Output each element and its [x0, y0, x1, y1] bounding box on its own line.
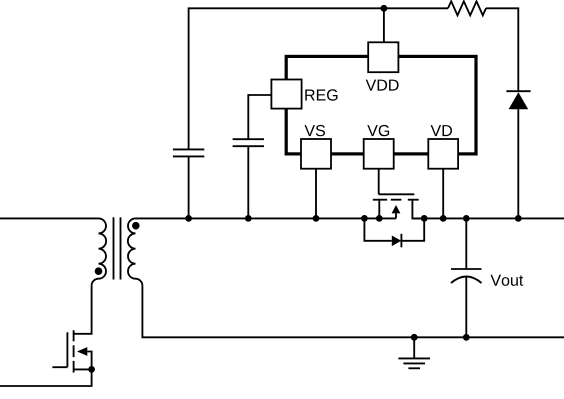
wire resistor to diode cathode — [486, 8, 518, 91]
transistor Q1 (primary MOSFET) — [67, 330, 91, 372]
capacitor C3 Vout (polarized) — [451, 269, 482, 283]
label VD — [431, 125, 452, 136]
resistor R1 — [448, 1, 486, 15]
node C2/rail junction — [245, 215, 252, 222]
wire body-diode loop left side — [364, 219, 391, 241]
transformer T1 core lines — [114, 217, 121, 279]
pin VD of U1 — [428, 139, 458, 169]
wire body-diode loop right side — [401, 218, 424, 240]
diode D1 (pointing up, cathode bar on top) — [506, 91, 530, 109]
node VS/rail junction — [313, 215, 320, 222]
node body-diode left junction — [361, 215, 368, 222]
label Vout — [491, 275, 524, 286]
wire primary bottom to Q1 drain — [74, 286, 92, 334]
node Q1 source/body junction — [88, 366, 95, 373]
IC U1 body (bold outline) — [286, 56, 476, 153]
wire C2 to rail — [247, 146, 249, 218]
pin VG of U1 — [364, 139, 394, 169]
label VG — [367, 125, 389, 136]
label VS — [305, 125, 326, 136]
node diode/rail junction — [515, 215, 522, 222]
pin REG of U1 — [271, 80, 301, 109]
transistor Q2 (synchronous rectifier MOSFET) — [373, 194, 424, 218]
wire main rail centre segment (secondary top to Q2 source/body) — [136, 217, 397, 219]
wire main rail left segment (input side) — [0, 217, 99, 219]
wire diode anode to output rail — [517, 109, 519, 218]
wire REG to C2 — [248, 95, 271, 139]
label REG — [305, 89, 337, 100]
wire top rail from C1 up and across to resistor — [189, 8, 448, 149]
node body-diode right junction — [421, 215, 428, 222]
label VDD — [366, 80, 399, 91]
wire VS pin down to rail — [315, 169, 317, 219]
transformer T1 primary winding — [92, 218, 107, 285]
node VDD junction dot on top rail — [381, 5, 388, 12]
wire C1 to rail — [188, 156, 190, 218]
node Q2 source junction — [376, 215, 383, 222]
wire Vout cap top — [465, 218, 467, 269]
wire VD pin down to rail — [442, 169, 444, 219]
transformer T1 secondary winding — [128, 218, 143, 285]
capacitor C1 (VDD bulk) — [173, 149, 204, 156]
wire main rail right segment (output side) — [412, 217, 564, 219]
node Vout top junction — [463, 215, 470, 222]
wire VDD feed down to VDD pin — [383, 8, 385, 43]
diode D2 (body diode, pointing right) — [392, 234, 402, 248]
node VD/rail junction — [440, 215, 447, 222]
pin VS of U1 — [301, 139, 331, 169]
transformer T1 secondary polarity dot — [132, 222, 140, 230]
node Vout bottom junction — [463, 334, 470, 341]
wire Q1 gate lead — [52, 366, 67, 368]
ground symbol — [398, 358, 430, 368]
node ground tap junction — [411, 334, 418, 341]
wire Q1 source to bottom-left return — [0, 369, 92, 386]
pin VDD of U1 — [368, 42, 398, 72]
capacitor C2 (REG bypass) — [233, 139, 264, 146]
node C1/rail junction — [185, 215, 192, 222]
wire Vout cap bottom to ground rail — [465, 278, 467, 338]
wire VG pin down to Q2 gate — [378, 169, 380, 195]
wire secondary bottom to ground rail — [142, 286, 564, 338]
transformer T1 primary polarity dot — [95, 267, 103, 275]
wire ground stem — [413, 337, 415, 358]
